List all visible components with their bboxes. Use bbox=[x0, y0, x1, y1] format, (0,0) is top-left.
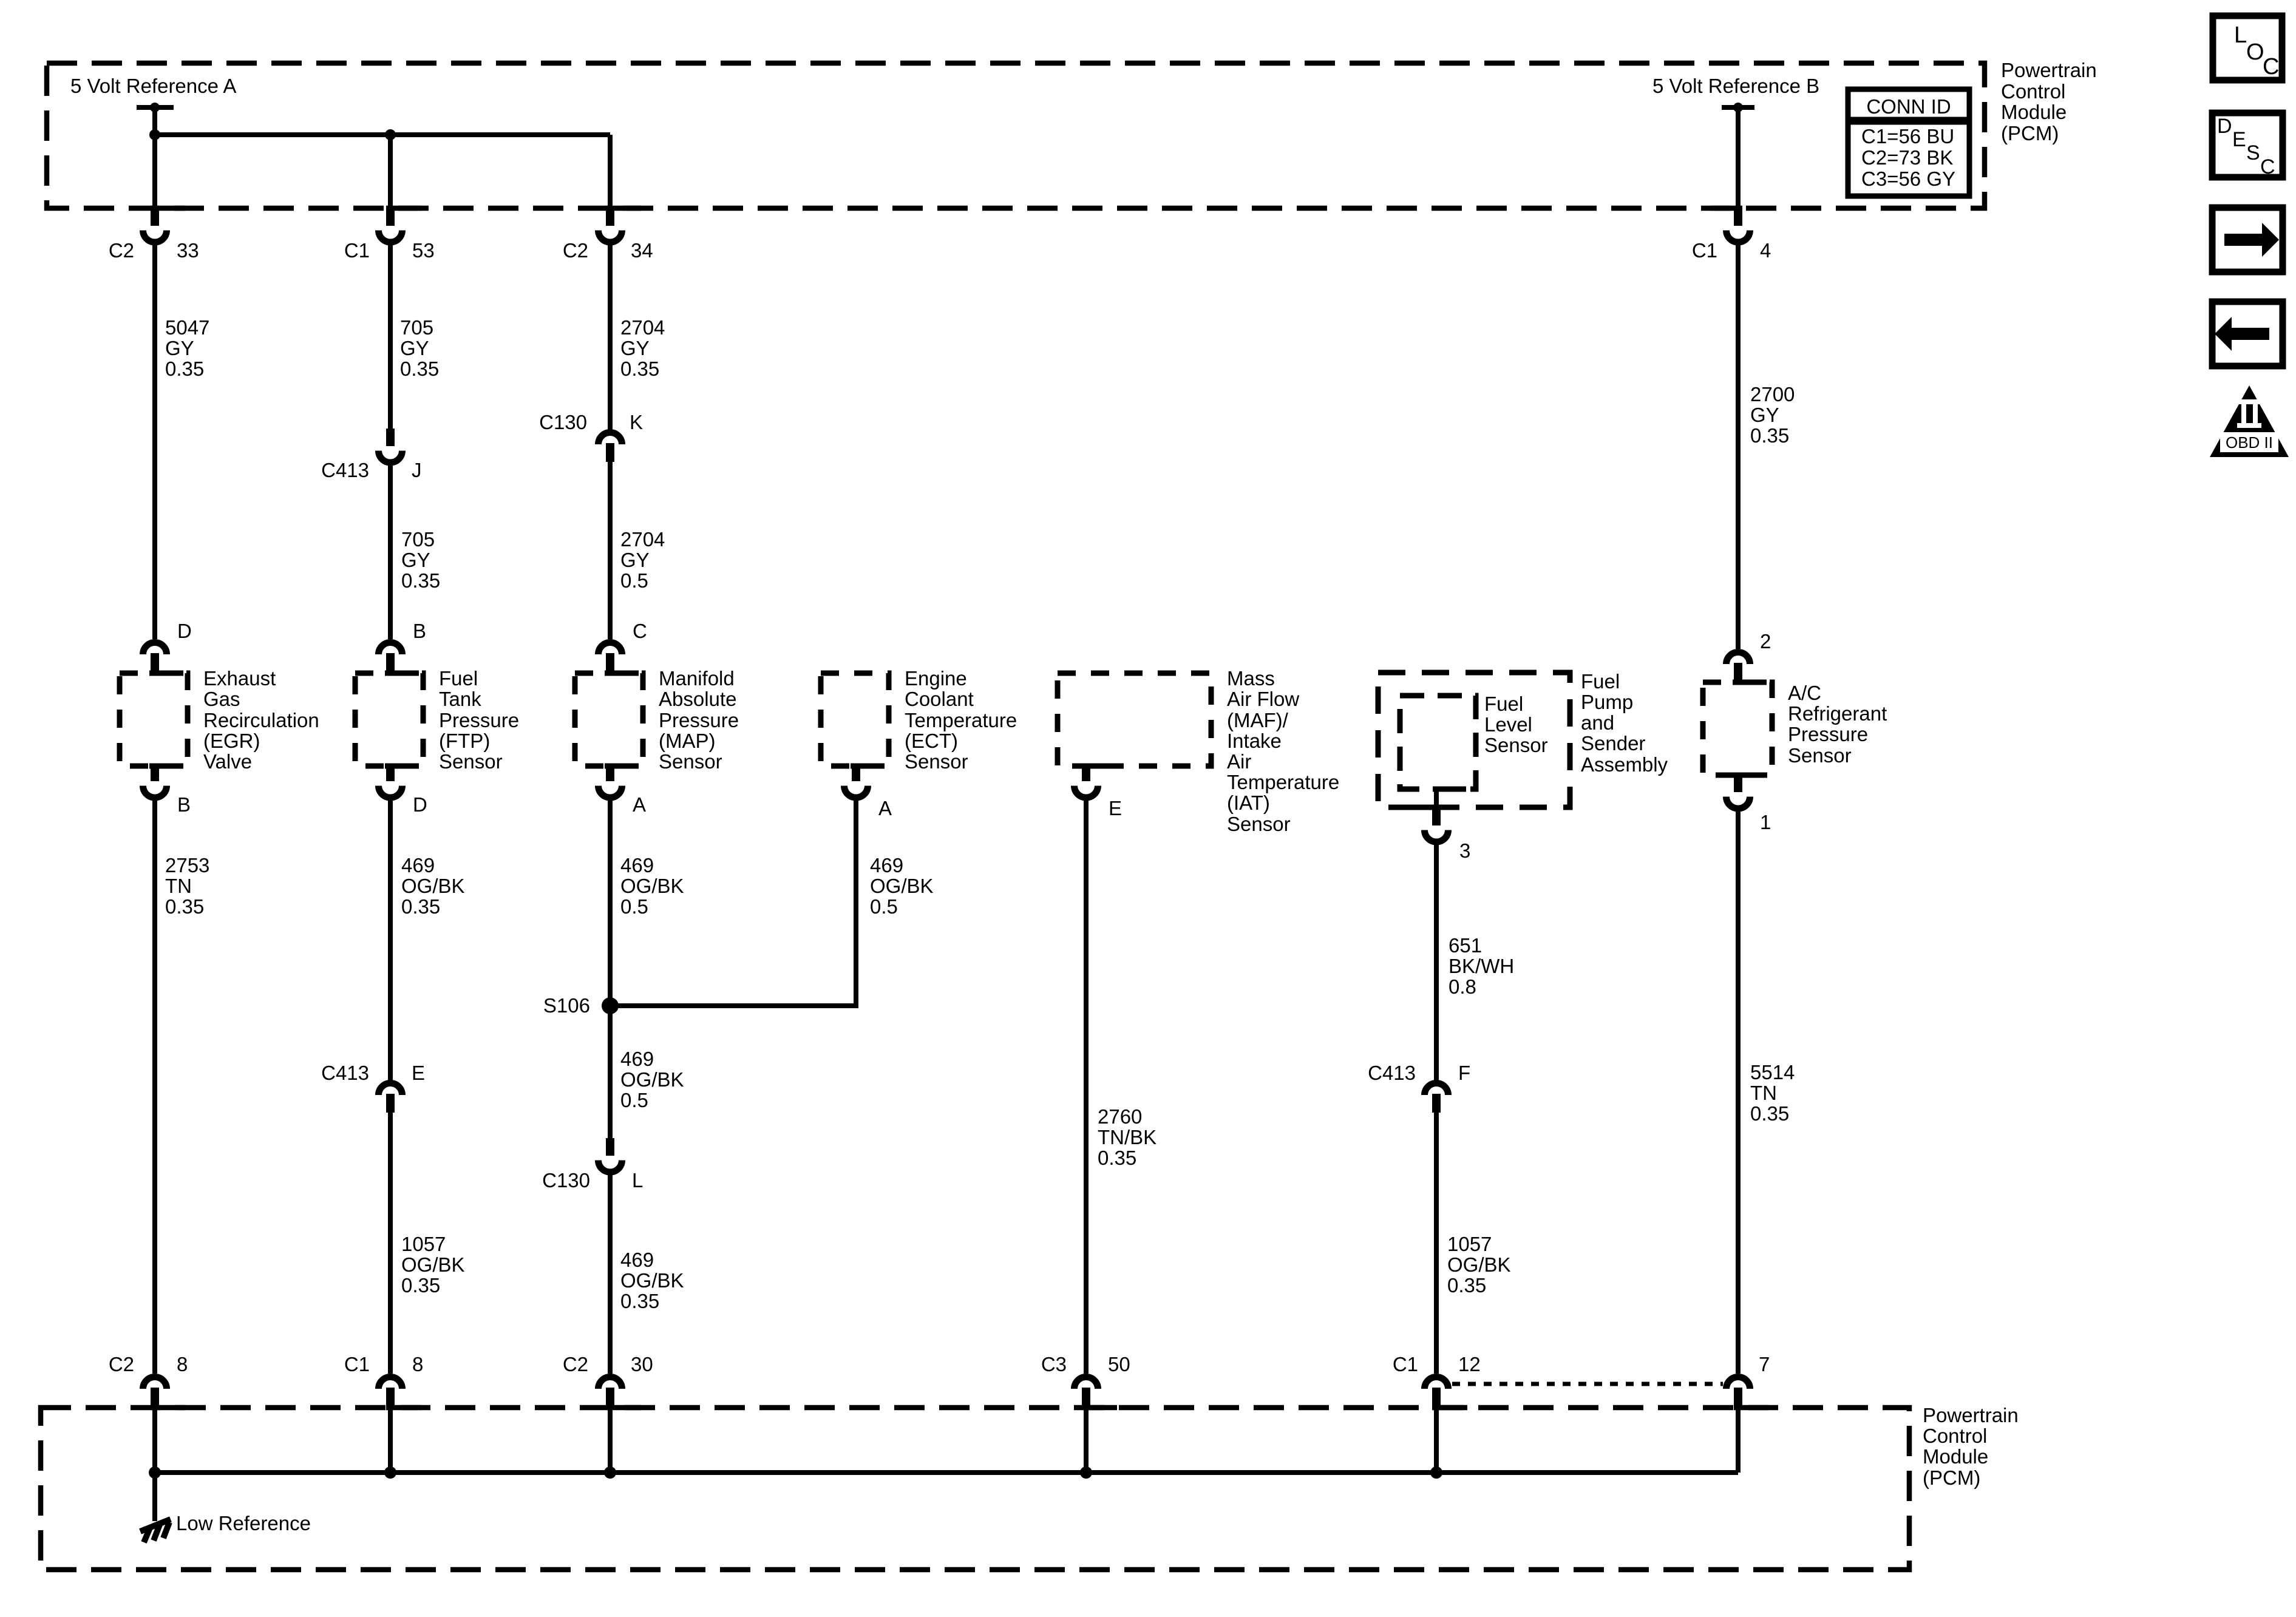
svg-text:34: 34 bbox=[631, 239, 653, 262]
wire 5V ref A vertical drop bbox=[152, 107, 157, 209]
svg-text:C2: C2 bbox=[563, 1353, 588, 1375]
svg-text:1057: 1057 bbox=[1447, 1233, 1492, 1255]
wire bus Low Reference bbox=[155, 1470, 1738, 1475]
wire 2704 GY upper segment bbox=[608, 245, 613, 430]
connector ECT pin A bbox=[844, 764, 892, 819]
wire fuel level sensor exit bbox=[1434, 789, 1439, 809]
PCM module box (bottom) bbox=[41, 1405, 1909, 1570]
svg-text:C: C bbox=[2260, 155, 2275, 178]
svg-text:0.35: 0.35 bbox=[620, 358, 659, 380]
svg-text:(ECT): (ECT) bbox=[905, 730, 958, 752]
connector C2 pin 30 bbox=[563, 1353, 653, 1406]
svg-text:469: 469 bbox=[870, 854, 903, 876]
svg-text:GY: GY bbox=[401, 549, 430, 571]
junction bus low ref x=643 bbox=[384, 1466, 396, 1479]
svg-text:0.35: 0.35 bbox=[165, 895, 204, 918]
svg-text:Coolant: Coolant bbox=[905, 688, 974, 710]
svg-text:GY: GY bbox=[1750, 404, 1779, 426]
ground Low Reference symbol bbox=[140, 1519, 171, 1542]
label Powertrain Control Module (PCM) bottom bbox=[1923, 1404, 2019, 1489]
svg-text:C2: C2 bbox=[109, 239, 134, 262]
svg-text:C1: C1 bbox=[344, 239, 370, 262]
Fuel Level Sensor box bbox=[1400, 696, 1476, 792]
svg-text:Control: Control bbox=[1923, 1425, 1987, 1447]
connector C2 pin 34 bbox=[563, 208, 653, 262]
svg-text:50: 50 bbox=[1108, 1353, 1130, 1375]
svg-text:0.5: 0.5 bbox=[620, 1089, 648, 1111]
MAP sensor box bbox=[575, 671, 643, 769]
svg-text:(EGR): (EGR) bbox=[203, 730, 260, 752]
connector C1 pin 8 bbox=[344, 1353, 424, 1406]
svg-text:E: E bbox=[1109, 797, 1122, 819]
svg-text:Fuel: Fuel bbox=[439, 667, 478, 690]
svg-text:C413: C413 bbox=[1368, 1062, 1416, 1084]
wire branch to C2 34 bbox=[608, 135, 613, 209]
junction bus A at wire 2 bbox=[385, 129, 396, 140]
svg-text:Absolute: Absolute bbox=[659, 688, 736, 710]
svg-text:Sensor: Sensor bbox=[1484, 734, 1548, 756]
CONN ID table bbox=[1848, 89, 1969, 196]
svg-text:J: J bbox=[412, 459, 422, 481]
svg-text:GY: GY bbox=[165, 337, 194, 359]
svg-text:OG/BK: OG/BK bbox=[401, 875, 465, 897]
svg-text:A: A bbox=[633, 793, 646, 816]
svg-text:0.35: 0.35 bbox=[1447, 1274, 1486, 1297]
svg-text:2700: 2700 bbox=[1750, 383, 1795, 405]
svg-text:7: 7 bbox=[1759, 1353, 1770, 1375]
svg-text:651: 651 bbox=[1449, 934, 1482, 957]
svg-text:C413: C413 bbox=[321, 1062, 369, 1084]
label 1057 OG/BK 0.35 (fuel) bbox=[1447, 1233, 1511, 1297]
svg-text:D: D bbox=[2217, 115, 2232, 138]
label Fuel Level Sensor bbox=[1484, 693, 1548, 756]
svg-text:C1: C1 bbox=[1692, 239, 1717, 262]
connector C413 pin E bbox=[321, 1062, 425, 1113]
svg-text:3: 3 bbox=[1459, 839, 1470, 862]
svg-text:TN: TN bbox=[1750, 1082, 1777, 1104]
svg-text:OG/BK: OG/BK bbox=[870, 875, 934, 897]
ECT sensor box bbox=[821, 673, 889, 769]
svg-text:Low Reference: Low Reference bbox=[176, 1512, 311, 1534]
svg-text:0.8: 0.8 bbox=[1449, 975, 1476, 998]
wire FTP into PCM bbox=[388, 1406, 393, 1473]
svg-text:0.35: 0.35 bbox=[165, 358, 204, 380]
connector C130 pin L bbox=[542, 1138, 643, 1192]
svg-text:33: 33 bbox=[177, 239, 199, 262]
svg-text:C2=73 BK: C2=73 BK bbox=[1861, 146, 1953, 169]
svg-text:Sensor: Sensor bbox=[1227, 813, 1291, 835]
wire 651 BK/WH segment bbox=[1434, 845, 1439, 1081]
svg-text:(MAF)/: (MAF)/ bbox=[1227, 709, 1289, 731]
svg-text:2753: 2753 bbox=[165, 854, 209, 876]
svg-text:CONN ID: CONN ID bbox=[1866, 95, 1951, 118]
svg-text:0.5: 0.5 bbox=[620, 569, 648, 592]
svg-text:2: 2 bbox=[1760, 630, 1771, 653]
connector A/C pin 2 bbox=[1727, 630, 1771, 682]
svg-text:4: 4 bbox=[1760, 239, 1771, 262]
connector C1 pin 53 bbox=[344, 208, 435, 262]
svg-text:469: 469 bbox=[620, 1048, 654, 1070]
svg-text:C: C bbox=[2263, 54, 2279, 80]
svg-text:C2: C2 bbox=[563, 239, 588, 262]
wire branch to C1 53 bbox=[388, 135, 393, 209]
wire 1057 OG/BK segment (FTP) bbox=[388, 1113, 393, 1374]
label 705 GY 0.35 upper bbox=[400, 316, 439, 380]
node 5 Volt Reference B bbox=[1652, 75, 1819, 112]
svg-text:Pressure: Pressure bbox=[439, 709, 519, 731]
svg-text:5514: 5514 bbox=[1750, 1061, 1795, 1083]
label Manifold Absolute Pressure (MAP) Sensor bbox=[659, 667, 739, 773]
svg-text:Sensor: Sensor bbox=[1788, 744, 1852, 767]
connector MAP pin A bbox=[599, 764, 647, 816]
label 1057 OG/BK 0.35 (FTP) bbox=[401, 1233, 465, 1297]
label 705 GY 0.35 lower bbox=[401, 528, 440, 592]
svg-text:Assembly: Assembly bbox=[1581, 753, 1668, 776]
splice S106 bbox=[543, 994, 619, 1017]
svg-text:0.5: 0.5 bbox=[620, 895, 648, 918]
wire A/C into PCM bbox=[1736, 1406, 1741, 1473]
Fuel Pump and Sender Assembly box bbox=[1378, 673, 1570, 810]
svg-text:Refrigerant: Refrigerant bbox=[1788, 702, 1887, 725]
svg-text:OG/BK: OG/BK bbox=[1447, 1253, 1511, 1276]
label 2753 TN 0.35 bbox=[165, 854, 209, 918]
label 2760 TN/BK 0.35 bbox=[1098, 1105, 1156, 1169]
wire 469 OG/BK segment (FTP) bbox=[388, 801, 393, 1081]
svg-text:0.5: 0.5 bbox=[870, 895, 898, 918]
wire 469 OG/BK segment above S106 bbox=[608, 801, 613, 1138]
svg-text:C2: C2 bbox=[109, 1353, 134, 1375]
svg-text:TN/BK: TN/BK bbox=[1098, 1126, 1156, 1148]
svg-text:OG/BK: OG/BK bbox=[620, 875, 684, 897]
junction bus low ref x=1789 bbox=[1080, 1466, 1092, 1479]
wire 5047 GY segment bbox=[152, 245, 157, 639]
svg-text:C413: C413 bbox=[321, 459, 369, 481]
svg-text:OG/BK: OG/BK bbox=[620, 1269, 684, 1292]
svg-text:C: C bbox=[633, 620, 647, 642]
svg-text:B: B bbox=[177, 793, 191, 816]
connector MAF pin E bbox=[1075, 764, 1123, 819]
svg-text:Control: Control bbox=[2001, 80, 2065, 103]
connector MAP pin C bbox=[599, 620, 647, 672]
svg-text:8: 8 bbox=[412, 1353, 423, 1375]
connector EGR pin D bbox=[143, 620, 192, 672]
connector pin 7 bbox=[1727, 1353, 1770, 1406]
svg-text:Engine: Engine bbox=[905, 667, 967, 690]
junction bus low ref x=1005 bbox=[604, 1466, 616, 1479]
label 5514 TN 0.35 bbox=[1750, 1061, 1795, 1125]
svg-text:D: D bbox=[413, 793, 427, 816]
svg-text:O: O bbox=[2246, 39, 2264, 65]
label 469 OG/BK 0.35 (FTP) bbox=[401, 854, 465, 918]
svg-text:705: 705 bbox=[401, 528, 435, 551]
junction bus low ref x=255 bbox=[149, 1466, 161, 1479]
svg-text:Pressure: Pressure bbox=[659, 709, 739, 731]
label A/C Refrigerant Pressure Sensor bbox=[1788, 682, 1887, 767]
svg-text:Module: Module bbox=[1923, 1445, 1988, 1468]
svg-text:E: E bbox=[412, 1062, 425, 1084]
icon LOC box bbox=[2213, 16, 2282, 80]
wire bus 5V ref A horizontal bbox=[155, 132, 610, 137]
icon OBD II triangle bbox=[2210, 385, 2289, 457]
label 5047 GY 0.35 bbox=[165, 316, 209, 380]
svg-text:2760: 2760 bbox=[1098, 1105, 1142, 1128]
label 469 OG/BK 0.5 (ECT) bbox=[870, 854, 934, 918]
wire MAF into PCM bbox=[1084, 1406, 1089, 1473]
svg-text:(IAT): (IAT) bbox=[1227, 792, 1270, 814]
connector FTP pin D bbox=[379, 764, 427, 816]
wire 2753 TN segment bbox=[152, 801, 157, 1374]
svg-text:0.35: 0.35 bbox=[1750, 1102, 1789, 1125]
svg-text:BK/WH: BK/WH bbox=[1449, 955, 1514, 977]
svg-text:0.35: 0.35 bbox=[620, 1290, 659, 1312]
svg-text:53: 53 bbox=[412, 239, 435, 262]
svg-text:Air Flow: Air Flow bbox=[1227, 688, 1299, 710]
svg-text:A/C: A/C bbox=[1788, 682, 1821, 704]
svg-text:2704: 2704 bbox=[620, 316, 665, 339]
svg-text:Fuel: Fuel bbox=[1581, 670, 1620, 693]
svg-text:C1=56 BU: C1=56 BU bbox=[1861, 125, 1954, 147]
svg-text:1: 1 bbox=[1760, 811, 1771, 833]
label Low Reference bbox=[176, 1512, 311, 1534]
svg-text:Fuel: Fuel bbox=[1484, 693, 1523, 715]
svg-text:Air: Air bbox=[1227, 750, 1251, 773]
svg-text:D: D bbox=[177, 620, 192, 642]
label 2704 GY 0.35 bbox=[620, 316, 665, 380]
svg-text:(PCM): (PCM) bbox=[1923, 1466, 1980, 1489]
svg-text:469: 469 bbox=[401, 854, 435, 876]
svg-text:K: K bbox=[630, 411, 643, 433]
svg-text:5 Volt Reference B: 5 Volt Reference B bbox=[1652, 75, 1819, 97]
svg-text:OG/BK: OG/BK bbox=[620, 1068, 684, 1091]
label 469 OG/BK 0.35 (MAP low) bbox=[620, 1249, 684, 1312]
svg-text:Sensor: Sensor bbox=[439, 750, 503, 773]
svg-text:Sender: Sender bbox=[1581, 732, 1645, 754]
svg-text:(MAP): (MAP) bbox=[659, 730, 716, 752]
svg-text:30: 30 bbox=[631, 1353, 653, 1375]
junction bus A at wire 1 bbox=[149, 129, 160, 140]
svg-text:C1: C1 bbox=[344, 1353, 370, 1375]
svg-text:B: B bbox=[413, 620, 426, 642]
junction bus low ref x=2366 bbox=[1430, 1466, 1442, 1479]
wire fuel into PCM bbox=[1434, 1406, 1439, 1473]
label Exhaust Gas Recirculation (EGR) Valve bbox=[203, 667, 319, 773]
svg-text:A: A bbox=[878, 797, 892, 819]
wire 2760 TN/BK segment bbox=[1084, 801, 1089, 1374]
connector C3 pin 50 bbox=[1041, 1353, 1130, 1406]
svg-text:Temperature: Temperature bbox=[1227, 771, 1339, 793]
PCM module box (top) bbox=[47, 63, 1985, 211]
wire 705 GY lower segment bbox=[388, 466, 393, 639]
connector fuel pump pin 3 bbox=[1425, 808, 1471, 862]
wire 5514 TN segment bbox=[1736, 812, 1741, 1374]
svg-text:5047: 5047 bbox=[165, 316, 209, 339]
svg-text:469: 469 bbox=[620, 854, 654, 876]
svg-text:Mass: Mass bbox=[1227, 667, 1275, 690]
svg-text:0.35: 0.35 bbox=[401, 569, 440, 592]
wire to ground bbox=[152, 1473, 157, 1521]
icon arrow right box bbox=[2212, 208, 2283, 272]
svg-text:(PCM): (PCM) bbox=[2001, 122, 2059, 144]
label Engine Coolant Temperature (ECT) Sensor bbox=[905, 667, 1017, 773]
svg-text:C3=56 GY: C3=56 GY bbox=[1861, 168, 1955, 190]
svg-text:C1: C1 bbox=[1393, 1353, 1418, 1375]
connector C413 pin F bbox=[1368, 1062, 1470, 1113]
svg-text:12: 12 bbox=[1458, 1353, 1481, 1375]
label 2704 GY 0.5 bbox=[620, 528, 665, 592]
svg-text:TN: TN bbox=[165, 875, 192, 897]
svg-text:GY: GY bbox=[400, 337, 429, 359]
A/C refrigerant pressure sensor box bbox=[1703, 680, 1772, 778]
svg-text:GY: GY bbox=[620, 549, 650, 571]
svg-text:OG/BK: OG/BK bbox=[401, 1253, 465, 1276]
svg-text:Valve: Valve bbox=[203, 750, 252, 773]
svg-text:8: 8 bbox=[177, 1353, 188, 1375]
wire 469 OG/BK segment below C130 L bbox=[608, 1175, 613, 1374]
label Powertrain Control Module (PCM) top bbox=[2001, 59, 2097, 144]
svg-text:L: L bbox=[2234, 22, 2247, 48]
wire MAP into PCM bbox=[608, 1406, 613, 1473]
connector C2 pin 8 bbox=[109, 1353, 188, 1406]
wire 2704 GY lower segment bbox=[608, 462, 613, 639]
svg-text:Exhaust: Exhaust bbox=[203, 667, 276, 690]
wire 705 GY upper segment bbox=[388, 245, 393, 429]
EGR valve box bbox=[120, 671, 188, 769]
label 2700 GY 0.35 bbox=[1750, 383, 1795, 447]
svg-text:0.35: 0.35 bbox=[401, 895, 440, 918]
wire ECT branch bbox=[610, 801, 856, 1006]
label Fuel Tank Pressure (FTP) Sensor bbox=[439, 667, 519, 773]
svg-text:C130: C130 bbox=[539, 411, 587, 433]
svg-text:Pump: Pump bbox=[1581, 691, 1633, 713]
svg-text:Temperature: Temperature bbox=[905, 709, 1017, 731]
svg-text:705: 705 bbox=[400, 316, 433, 339]
svg-text:and: and bbox=[1581, 711, 1614, 734]
connector C1 pin 4 bbox=[1692, 208, 1771, 262]
svg-text:Gas: Gas bbox=[203, 688, 240, 710]
svg-text:C3: C3 bbox=[1041, 1353, 1067, 1375]
svg-text:2704: 2704 bbox=[620, 528, 665, 551]
svg-text:Module: Module bbox=[2001, 101, 2067, 123]
svg-text:S: S bbox=[2246, 141, 2260, 164]
FTP sensor box bbox=[355, 671, 423, 769]
wire 2700 GY segment bbox=[1736, 245, 1741, 649]
svg-text:1057: 1057 bbox=[401, 1233, 446, 1255]
label Mass Air Flow (MAF)/Intake Air Temperature (IAT) Sensor bbox=[1227, 667, 1339, 835]
svg-text:F: F bbox=[1458, 1062, 1470, 1084]
icon DESC box bbox=[2212, 113, 2283, 178]
connector C1 pin 12 bbox=[1393, 1353, 1481, 1406]
svg-text:(FTP): (FTP) bbox=[439, 730, 490, 752]
svg-text:Intake: Intake bbox=[1227, 730, 1282, 752]
connector A/C pin 1 bbox=[1727, 775, 1771, 833]
svg-text:Manifold: Manifold bbox=[659, 667, 735, 690]
connector C2 pin 33 bbox=[109, 208, 199, 262]
connector EGR pin B bbox=[143, 764, 191, 816]
svg-text:Recirculation: Recirculation bbox=[203, 709, 319, 731]
svg-text:Powertrain: Powertrain bbox=[1923, 1404, 2019, 1426]
label Fuel Pump and Sender Assembly bbox=[1581, 670, 1668, 776]
svg-text:Level: Level bbox=[1484, 713, 1532, 736]
svg-text:GY: GY bbox=[620, 337, 650, 359]
MAF sensor box bbox=[1058, 673, 1211, 769]
svg-text:L: L bbox=[632, 1169, 643, 1192]
svg-text:0.35: 0.35 bbox=[1098, 1147, 1136, 1169]
svg-text:5 Volt Reference A: 5 Volt Reference A bbox=[70, 75, 236, 97]
label 469 OG/BK 0.5 below S106 bbox=[620, 1048, 684, 1111]
svg-text:Sensor: Sensor bbox=[905, 750, 968, 773]
node 5 Volt Reference A bbox=[70, 75, 236, 112]
wire EGR into PCM bbox=[152, 1406, 157, 1473]
connector FTP pin B bbox=[379, 620, 427, 672]
label 469 OG/BK 0.5 above S106 bbox=[620, 854, 684, 918]
svg-text:E: E bbox=[2232, 128, 2246, 151]
svg-text:Sensor: Sensor bbox=[659, 750, 722, 773]
icon arrow left box bbox=[2212, 302, 2283, 366]
svg-text:Powertrain: Powertrain bbox=[2001, 59, 2097, 81]
svg-text:0.35: 0.35 bbox=[401, 1274, 440, 1297]
svg-text:Pressure: Pressure bbox=[1788, 723, 1868, 745]
svg-text:C130: C130 bbox=[542, 1169, 590, 1192]
dotted link C1 12 to pin 7 bbox=[1452, 1382, 1723, 1386]
wire 1057 OG/BK segment (fuel) bbox=[1434, 1113, 1439, 1374]
connector C130 pin K bbox=[539, 411, 643, 462]
svg-text:OBD II: OBD II bbox=[2226, 433, 2273, 452]
connector C413 pin J bbox=[321, 429, 421, 481]
svg-text:0.35: 0.35 bbox=[1750, 424, 1789, 447]
svg-text:S106: S106 bbox=[543, 994, 590, 1017]
svg-text:0.35: 0.35 bbox=[400, 358, 439, 380]
svg-text:469: 469 bbox=[620, 1249, 654, 1271]
wire 5V ref B vertical drop bbox=[1736, 107, 1741, 209]
svg-text:Tank: Tank bbox=[439, 688, 481, 710]
label 651 BK/WH 0.8 bbox=[1449, 934, 1514, 998]
